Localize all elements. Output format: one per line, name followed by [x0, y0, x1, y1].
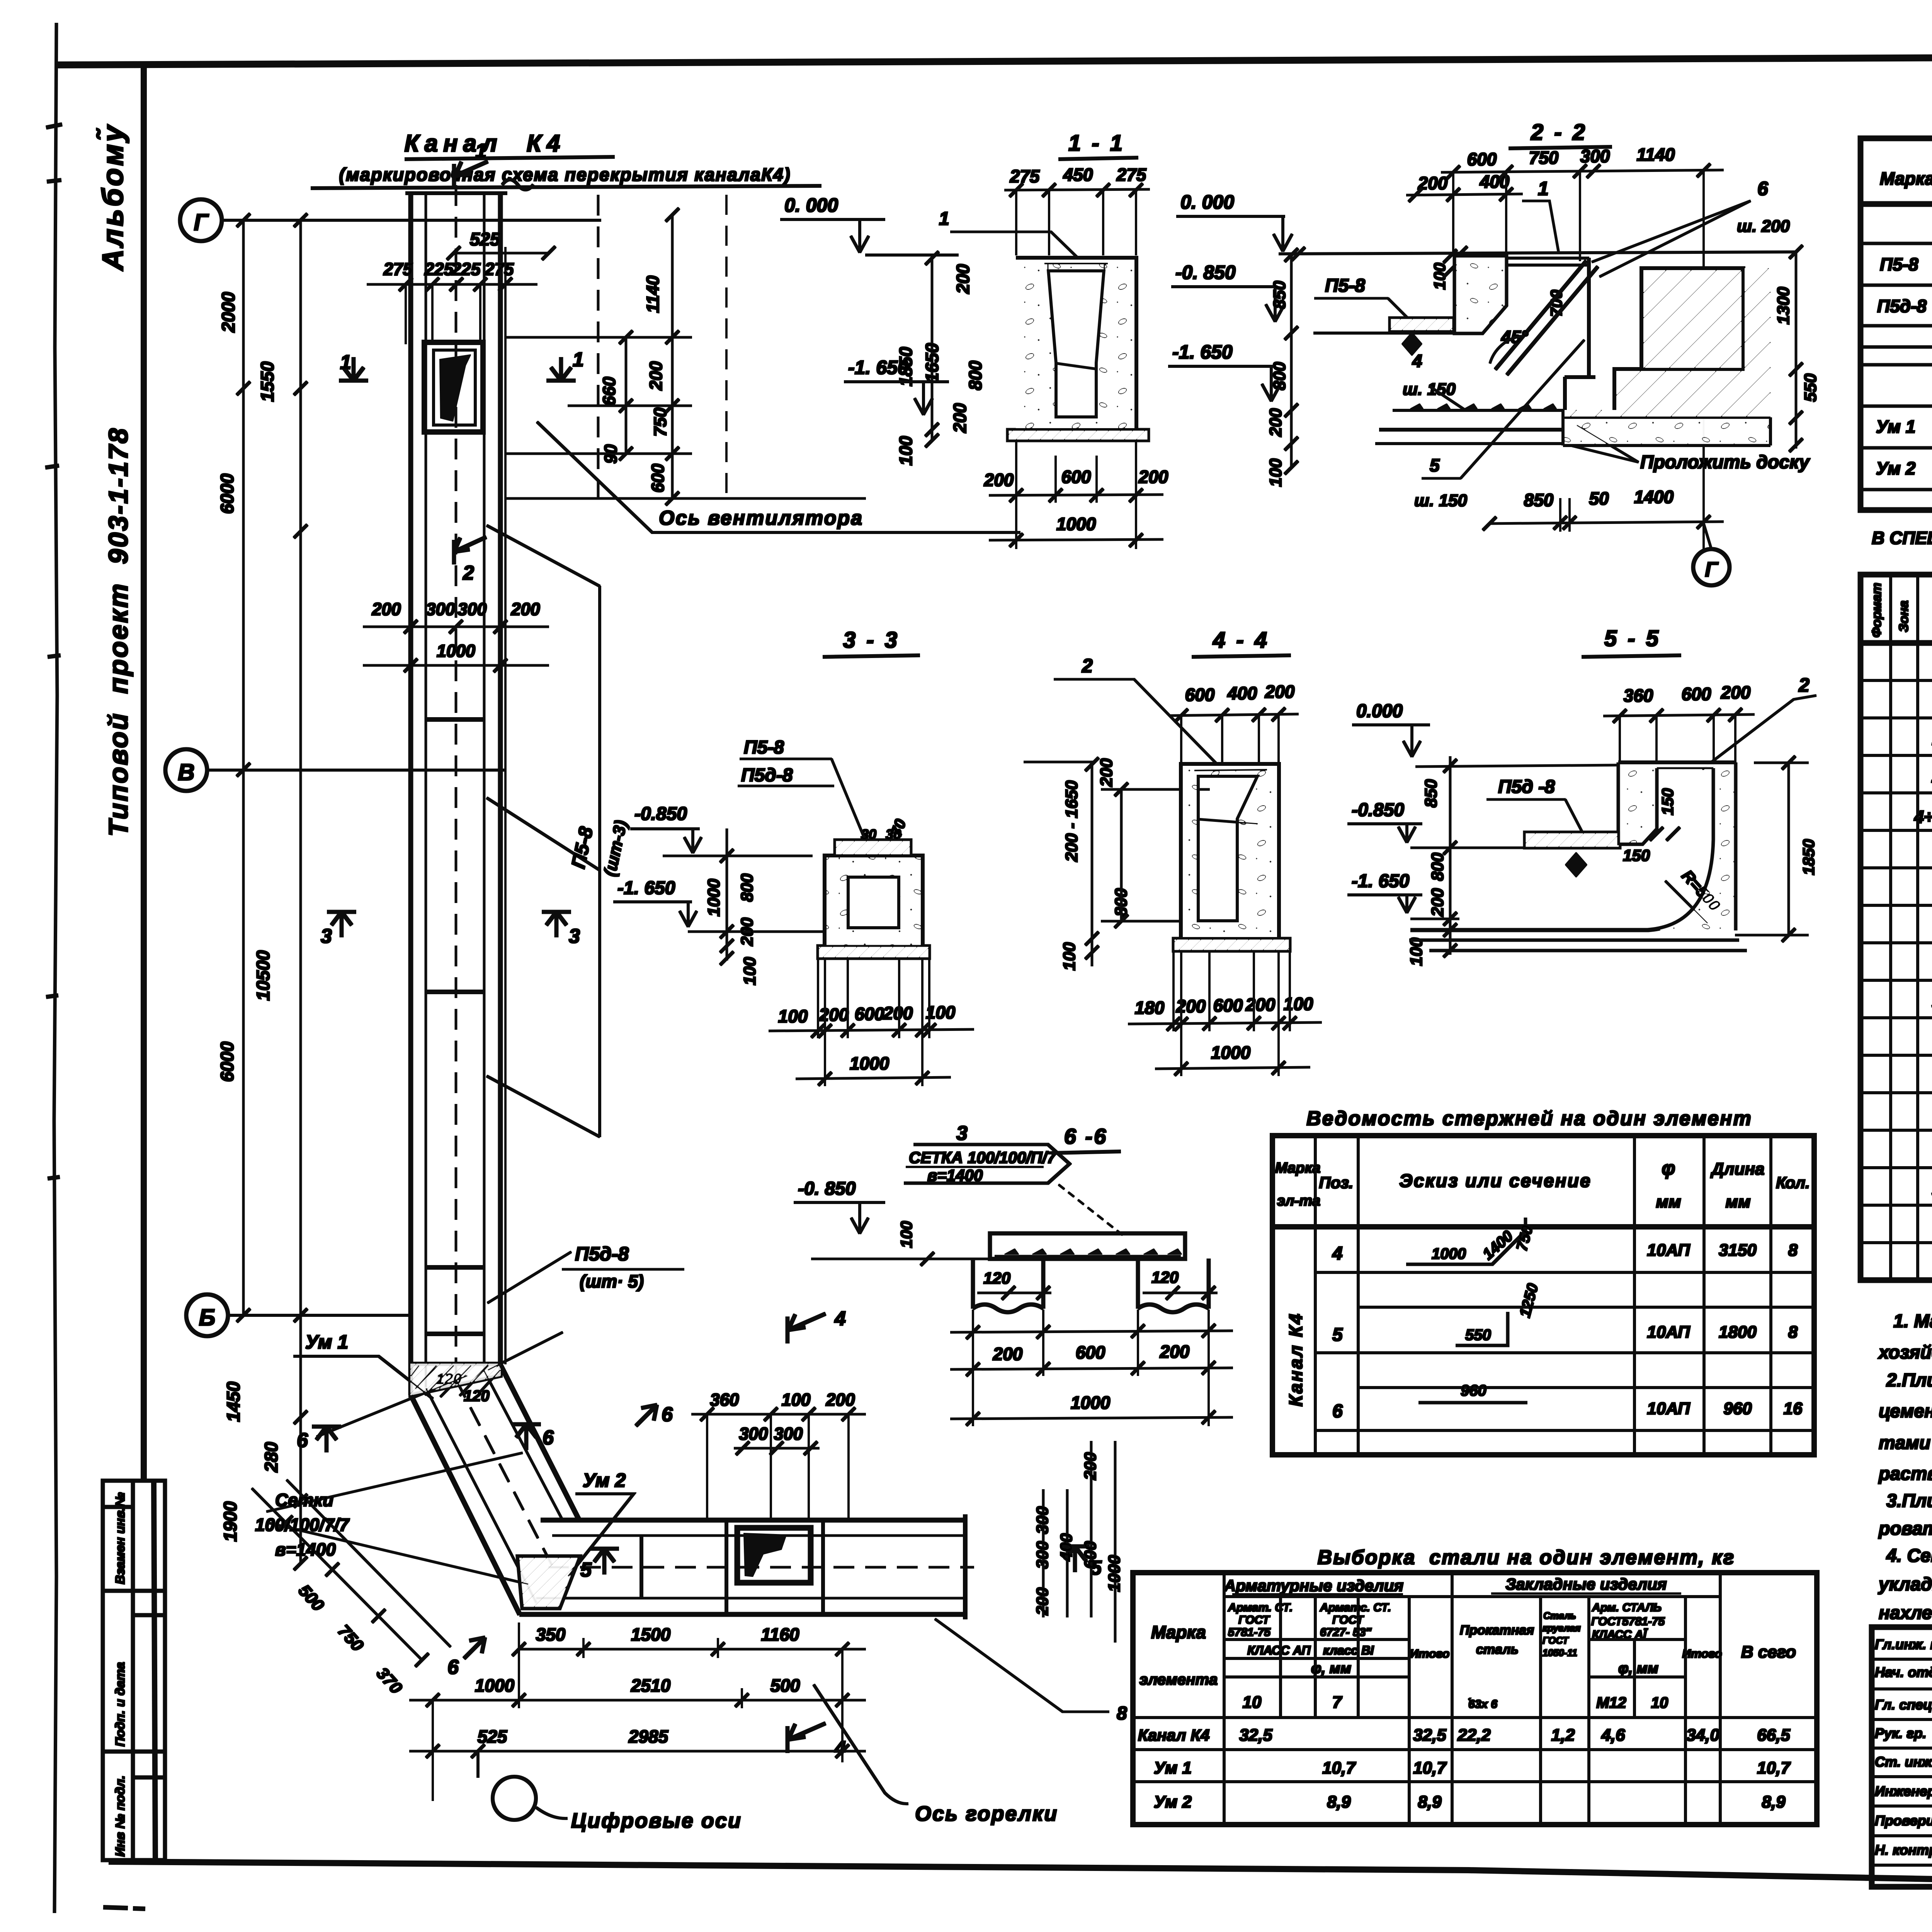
svg-text:450: 450 [1063, 165, 1093, 185]
svg-text:сталь: сталь [1476, 1642, 1519, 1657]
svg-text:П5-8: П5-8 [1325, 276, 1365, 296]
svg-text:200: 200 [510, 599, 540, 619]
svg-text:600: 600 [1061, 467, 1091, 487]
svg-text:100: 100 [778, 1006, 808, 1026]
svg-text:укладывать по ширине канала в: укладывать по ширине канала в [1878, 1574, 1932, 1595]
section 2-2 right dim chain [1795, 252, 1797, 448]
svg-text:5: 5 [1332, 1325, 1343, 1345]
svg-text:300: 300 [1033, 1506, 1052, 1534]
section 5-5 bottom base [1410, 940, 1747, 951]
svg-text:350: 350 [536, 1624, 566, 1645]
svg-text:200: 200 [371, 599, 401, 619]
svg-text:6: 6 [543, 1427, 554, 1449]
svg-text:2000: 2000 [218, 292, 238, 333]
section 3-3 cavity [848, 877, 899, 928]
svg-text:4. Сетки монолитных участ: 4. Сетки монолитных участков [1886, 1546, 1932, 1566]
section 2-2 top dims row2 [1418, 172, 1510, 193]
axis V line [207, 769, 506, 771]
svg-text:600: 600 [855, 1004, 884, 1024]
svg-text:6: 6 [1332, 1401, 1343, 1422]
axis B line [229, 1314, 413, 1316]
section 2-2 plate 1 between block and wall [1508, 258, 1589, 265]
svg-text:5: 5 [1430, 455, 1440, 475]
svg-text:6000: 6000 [217, 1041, 237, 1082]
svg-text:200: 200 [993, 1344, 1023, 1364]
section 2-2 bottom rebar slab [1376, 410, 1565, 444]
svg-text:200: 200 [819, 1005, 849, 1025]
dashed extension line [726, 195, 727, 498]
diagonal channel dashed axis [456, 1379, 552, 1565]
svg-text:ГОСТ: ГОСТ [1238, 1614, 1270, 1626]
svg-text:200: 200 [1138, 467, 1168, 487]
svg-text:200: 200 [1265, 682, 1295, 702]
svg-text:10,7: 10,7 [1322, 1759, 1356, 1777]
svg-text:32,5: 32,5 [1413, 1726, 1446, 1745]
section 3-3 top hatched plate [835, 840, 911, 855]
svg-text:раствором.: раствором. [1878, 1464, 1932, 1484]
svg-text:1,2: 1,2 [1551, 1726, 1575, 1745]
section cut 6 arrows near corner [312, 1405, 657, 1658]
svg-text:100: 100 [1060, 942, 1079, 971]
section 6-6 plate [990, 1233, 1185, 1259]
svg-text:Ум 1: Ум 1 [1154, 1759, 1192, 1777]
svg-text:Арматурные изделия: Арматурные изделия [1224, 1577, 1403, 1595]
svg-text:16: 16 [1784, 1399, 1803, 1418]
section 1-1 base slab [1008, 430, 1148, 440]
svg-text:1300: 1300 [1774, 287, 1793, 325]
svg-text:Сталь: Сталь [1543, 1611, 1576, 1621]
svg-text:3 - 3: 3 - 3 [843, 628, 900, 653]
section cut 5 arrows [590, 1546, 1089, 1574]
svg-text:Типовой проект 903-1-178: Типовой проект 903-1-178 [103, 427, 133, 837]
section 6-6 rebar dots [1005, 1249, 1182, 1254]
svg-text:120: 120 [1151, 1268, 1179, 1286]
svg-text:2: 2 [463, 562, 474, 584]
svg-text:ш. 150: ш. 150 [1414, 491, 1468, 510]
joint lines in horizontal strip [641, 1522, 823, 1613]
svg-text:800: 800 [965, 361, 985, 390]
svg-text:10АП: 10АП [1647, 1241, 1690, 1260]
svg-text:6727- 53″: 6727- 53″ [1320, 1626, 1372, 1639]
svg-text:П5-8: П5-8 [1880, 254, 1918, 274]
svg-text:Ось вентилятора: Ось вентилятора [659, 507, 863, 529]
svg-text:300: 300 [426, 599, 455, 619]
vyborka data rows [1138, 1726, 1791, 1811]
svg-text:200: 200 [1266, 408, 1285, 437]
svg-text:100: 100 [1284, 994, 1313, 1014]
svg-text:100: 100 [740, 957, 759, 985]
svg-text:8,9: 8,9 [1762, 1793, 1786, 1811]
svg-text:1450: 1450 [223, 1381, 243, 1422]
channel K4 vertical strip walls [406, 193, 507, 1395]
svg-text:-1. 650: -1. 650 [1172, 341, 1233, 363]
left chain dim labels [217, 292, 281, 1542]
section 2-2 earth block hatched [1563, 269, 1770, 418]
spec grid [1861, 138, 1932, 510]
svg-text:550: 550 [1801, 373, 1820, 402]
svg-text:1800: 1800 [1719, 1323, 1757, 1342]
svg-text:Инженер: Инженер [1875, 1783, 1932, 1799]
svg-text:П5д-8: П5д-8 [1877, 296, 1927, 316]
section 5-5 right wall and curve [1411, 763, 1735, 930]
section 5-5 top slab line [1619, 761, 1735, 765]
svg-text:Г: Г [1705, 558, 1719, 581]
svg-text:525: 525 [470, 229, 500, 249]
bottom-left stamp labels [113, 1492, 127, 1857]
section 2-2 bottom dims [1524, 487, 1674, 510]
corner guide diagonals from setki label [267, 1376, 529, 1584]
svg-text:225: 225 [424, 259, 454, 279]
section 1-1 leader 1 [951, 232, 1078, 258]
title block signature rows [1872, 1627, 1932, 1887]
top dims of horizontal strip [710, 1390, 855, 1444]
svg-text:6: 6 [447, 1656, 459, 1679]
vyborka grid [1133, 1573, 1817, 1825]
section 2-2 45deg wedge formwork [1495, 261, 1598, 375]
right top dim chain [672, 215, 673, 498]
svg-text:34,0: 34,0 [1686, 1726, 1719, 1745]
svg-text:300: 300 [457, 599, 486, 619]
section 6-6 level line and 100 [811, 1258, 989, 1260]
svg-text:1140: 1140 [1637, 145, 1675, 165]
svg-text:нахлестку обрезать по месту.: нахлестку обрезать по месту. [1879, 1603, 1932, 1623]
section 4-4 base slab [1173, 939, 1290, 951]
svg-text:-0.850: -0.850 [1352, 800, 1404, 820]
section 4-4 left rotated dims [1060, 758, 1131, 971]
svg-text:100: 100 [781, 1390, 810, 1410]
svg-text:Итого: Итого [1682, 1647, 1722, 1660]
svg-text:1500: 1500 [631, 1624, 671, 1645]
svg-text:0.000: 0.000 [1356, 701, 1403, 721]
svg-text:класс ВI: класс ВI [1323, 1643, 1374, 1657]
svg-text:Поз.: Поз. [1319, 1173, 1354, 1192]
svg-text:Гл. спец: Гл. спец [1875, 1697, 1932, 1713]
fan mark dark stroke [440, 355, 471, 421]
svg-text:φ: φ [1662, 1157, 1675, 1179]
svg-text:П5д-8: П5д-8 [741, 765, 793, 786]
svg-text:КЛАСС АЇ: КЛАСС АЇ [1592, 1628, 1648, 1641]
svg-text:СЕТКА 100/100/П/7: СЕТКА 100/100/П/7 [909, 1148, 1056, 1167]
svg-text:в=1400: в=1400 [275, 1539, 336, 1560]
svg-text:2 - 2: 2 - 2 [1531, 120, 1587, 145]
svg-text:800: 800 [1428, 852, 1447, 881]
svg-text:6: 6 [662, 1403, 673, 1426]
vedomost grid [1272, 1136, 1814, 1455]
svg-text:Ст. инж.: Ст. инж. [1875, 1754, 1932, 1770]
svg-text:ГОСТ: ГОСТ [1332, 1614, 1364, 1626]
diagonal channel walls [411, 1365, 580, 1614]
svg-text:6000: 6000 [217, 473, 237, 514]
svg-text:960: 960 [1461, 1382, 1486, 1399]
svg-text:Арм. СТАЛЬ: Арм. СТАЛЬ [1592, 1601, 1662, 1614]
svg-text:ш. 150: ш. 150 [1403, 380, 1456, 399]
svg-text:хозяйства см. лист КЖ-9; КЖ-1: хозяйства см. лист КЖ-9; КЖ-10. [1878, 1342, 1932, 1363]
burner axis label [814, 1685, 908, 1804]
svg-text:600: 600 [1185, 685, 1215, 705]
svg-text:120: 120 [464, 1388, 490, 1405]
svg-text:1. Маркировочную схему подземн: 1. Маркировочную схему подземного [1893, 1311, 1932, 1332]
svg-text:Канал К4: Канал К4 [1286, 1312, 1306, 1406]
signature role labels [1875, 1636, 1932, 1858]
svg-text:Марка: Марка [1880, 168, 1932, 189]
svg-text:Ведомость стержней на один эле: Ведомость стержней на один элемент [1306, 1107, 1752, 1130]
svg-text:100: 100 [926, 1002, 956, 1022]
svg-text:М12: М12 [1596, 1694, 1626, 1711]
section 2-2 concrete strip below [1563, 418, 1770, 445]
svg-text:200: 200 [738, 917, 757, 946]
svg-text:эл-та: эл-та [1277, 1193, 1320, 1209]
svg-text:Ум 2: Ум 2 [583, 1469, 626, 1491]
svg-text:600: 600 [1682, 684, 1711, 704]
svg-text:-1. 650: -1. 650 [848, 357, 908, 378]
section 1-1 body walls concrete [1016, 258, 1136, 430]
svg-text:Арматс. СТ.: Арматс. СТ. [1320, 1601, 1391, 1614]
svg-text:1050-11: 1050-11 [1543, 1648, 1577, 1658]
svg-text:200: 200 [1428, 888, 1447, 917]
svg-text:Альбому̃: Альбому̃ [97, 123, 129, 271]
svg-text:4: 4 [1412, 351, 1422, 371]
section 4-4 top plate lines [1194, 770, 1267, 770]
svg-text:100: 100 [896, 436, 916, 466]
svg-text:1000: 1000 [704, 879, 723, 917]
svg-text:200: 200 [883, 1003, 913, 1023]
svg-text:6 -6: 6 -6 [1064, 1124, 1108, 1148]
svg-text:3: 3 [321, 925, 332, 947]
section 3-3 base slab [818, 946, 929, 958]
svg-text:Длина: Длина [1710, 1160, 1764, 1179]
svg-text:275: 275 [1010, 166, 1040, 186]
svg-text:ш. 200: ш. 200 [1737, 217, 1790, 236]
svg-text:Инв № подл.: Инв № подл. [113, 1776, 127, 1857]
section cut 2 mark [454, 537, 486, 564]
svg-text:50: 50 [1589, 488, 1609, 509]
svg-text:1000: 1000 [475, 1675, 515, 1696]
svg-text:90: 90 [601, 444, 621, 464]
section 6-6 bottom dims [993, 1342, 1190, 1413]
svg-text:0. 000: 0. 000 [784, 194, 838, 216]
bottom dim rows [475, 1624, 800, 1747]
section 1-1 top dims [1010, 165, 1147, 186]
svg-text:400: 400 [1480, 172, 1510, 192]
section cut 1 arrows [339, 357, 575, 381]
svg-text:-1. 650: -1. 650 [617, 878, 675, 898]
section 2-2 top dims row1 [1467, 145, 1675, 169]
section 2-2 orientation diamond [1402, 332, 1422, 355]
section 2-2 vertical wall edge [1565, 258, 1595, 410]
svg-text:П5-8: П5-8 [744, 737, 784, 758]
svg-text:(шт· 5): (шт· 5) [580, 1271, 644, 1291]
fan axis dashed line [597, 195, 599, 498]
svg-text:1000: 1000 [1211, 1043, 1251, 1063]
svg-text:1900: 1900 [220, 1501, 240, 1542]
top cut mark 1 above strip [454, 162, 488, 188]
svg-text:800: 800 [1270, 362, 1289, 390]
svg-text:8: 8 [1788, 1323, 1798, 1342]
section 3-3 left rotated dims [704, 873, 759, 985]
svg-text:Проверил.: Проверил. [1875, 1813, 1932, 1828]
section 5-5 upper-left wall block [1619, 763, 1656, 844]
svg-text:200: 200 [950, 403, 970, 433]
svg-text:500: 500 [770, 1675, 800, 1696]
vedomost headers [1275, 1160, 1320, 1209]
svg-text:400: 400 [1227, 683, 1257, 703]
svg-text:1650: 1650 [922, 343, 942, 383]
svg-text:10АП: 10АП [1647, 1399, 1690, 1418]
svg-text:550: 550 [1465, 1327, 1491, 1344]
svg-text:Цифровые оси: Цифровые оси [571, 1809, 742, 1832]
svg-text:200: 200 [1176, 996, 1206, 1016]
svg-text:960: 960 [1723, 1399, 1752, 1418]
axis circle V [165, 749, 207, 791]
svg-text:круглая: круглая [1543, 1623, 1581, 1634]
svg-text:Б: Б [199, 1304, 215, 1330]
svg-text:4 - 4: 4 - 4 [1213, 628, 1269, 653]
svg-text:120: 120 [983, 1269, 1010, 1287]
svg-text:275: 275 [383, 259, 413, 279]
plate joint rungs [425, 719, 485, 1334]
svg-text:150: 150 [1658, 788, 1677, 815]
svg-text:2510: 2510 [631, 1675, 671, 1696]
svg-text:Ум 1: Ум 1 [1876, 417, 1915, 437]
section 5-5 inner dims [1623, 788, 1818, 915]
Um1 hatch [411, 1364, 500, 1395]
svg-text:600: 600 [1467, 149, 1497, 169]
svg-text:7: 7 [1332, 1693, 1343, 1712]
svg-text:ГОСТ5781-75: ГОСТ5781-75 [1591, 1615, 1665, 1628]
svg-text:тами тщательно заполнить цемен: тами тщательно заполнить цементным [1879, 1433, 1932, 1453]
svg-text:4: 4 [834, 1308, 846, 1330]
section 1-1 top plate line [1044, 262, 1108, 265]
corner monolithic box Um1 [411, 1364, 500, 1395]
svg-text:300: 300 [1580, 146, 1610, 166]
axis circle B [186, 1294, 228, 1336]
section cut 4 marks [787, 1314, 825, 1753]
svg-text:10,7: 10,7 [1413, 1759, 1447, 1777]
svg-text:1850: 1850 [1799, 839, 1818, 875]
mid dims 200 300 300 200 and 1000 [371, 599, 540, 661]
svg-text:30: 30 [861, 827, 876, 842]
svg-text:1: 1 [573, 349, 584, 371]
section 5-5 L body concrete [1619, 763, 1735, 930]
svg-text:200: 200 [825, 1390, 855, 1410]
svg-text:400: 400 [1057, 1533, 1076, 1561]
svg-text:ГОСТ: ГОСТ [1543, 1635, 1570, 1646]
svg-text:66,5: 66,5 [1757, 1726, 1790, 1745]
svg-text:Подп. и дата: Подп. и дата [113, 1662, 127, 1747]
svg-text:Зона: Зона [1896, 600, 1911, 632]
svg-text:3150: 3150 [1719, 1241, 1757, 1260]
svg-text:1000: 1000 [1432, 1245, 1466, 1262]
svg-text:П5д-8: П5д-8 [575, 1243, 629, 1265]
svg-text:Закладные изделия: Закладные изделия [1505, 1575, 1667, 1593]
svg-text:Взамен инв.№: Взамен инв.№ [113, 1492, 127, 1584]
axis G line [222, 219, 601, 221]
svg-text:мм: мм [1725, 1192, 1750, 1211]
svg-text:30: 30 [886, 827, 901, 842]
svg-text:6: 6 [297, 1429, 308, 1452]
svg-text:В сего: В сего [1741, 1643, 1796, 1662]
svg-text:360: 360 [710, 1390, 739, 1410]
svg-text:1160: 1160 [761, 1624, 799, 1645]
section 4-4 bottom dims [1135, 994, 1313, 1063]
section 2-2 axis G circle [1693, 549, 1730, 585]
svg-text:Ум 2: Ум 2 [1876, 458, 1916, 478]
digital axes circle and label [493, 1777, 536, 1820]
sheet frame border [58, 55, 1932, 65]
section 2-2 left vertical chain [1291, 255, 1293, 468]
fan opening rectangle [424, 342, 483, 432]
section 3-3 left dim line [726, 829, 728, 960]
svg-text:1000: 1000 [1056, 514, 1096, 534]
setki grid label [255, 1490, 350, 1560]
svg-text:мм: мм [1656, 1192, 1681, 1211]
svg-text:Кол.: Кол. [1776, 1173, 1810, 1192]
svg-text:32,5: 32,5 [1239, 1726, 1272, 1745]
svg-text:360: 360 [1624, 685, 1653, 706]
svg-text:Гл.инж. пр.: Гл.инж. пр. [1875, 1636, 1932, 1652]
svg-text:Прокатная: Прокатная [1460, 1623, 1534, 1638]
Um2 monolithic hatched area [518, 1556, 580, 1608]
svg-text:Ось горелки: Ось горелки [915, 1802, 1058, 1825]
svg-text:6: 6 [1757, 178, 1769, 199]
svg-text:10АП: 10АП [1647, 1323, 1690, 1342]
paper edge noise dashes [46, 124, 62, 1179]
svg-text:600: 600 [1213, 995, 1243, 1015]
svg-text:100: 100 [1266, 458, 1285, 487]
section 5-5 horizontal plate hatched [1525, 832, 1620, 848]
svg-text:֫63х 6: ֫63х 6 [1468, 1698, 1497, 1711]
section 5-5 orientation diamond [1565, 852, 1587, 877]
svg-text:10500: 10500 [253, 950, 273, 1001]
svg-text:2: 2 [1082, 655, 1093, 677]
svg-text:1140: 1140 [643, 276, 663, 313]
svg-text:1: 1 [939, 209, 949, 229]
section 2-2 hatched plate left [1390, 318, 1453, 331]
svg-text:Эскиз или сечение: Эскиз или сечение [1399, 1171, 1591, 1191]
svg-text:1: 1 [1538, 178, 1549, 199]
section 2-2 top-left concrete block [1455, 256, 1506, 333]
svg-text:1: 1 [340, 351, 351, 374]
svg-text:200: 200 [646, 361, 666, 391]
svg-text:200: 200 [1245, 995, 1276, 1015]
svg-text:750: 750 [650, 408, 670, 437]
svg-text:100: 100 [897, 1221, 915, 1248]
svg-text:8,9: 8,9 [1327, 1793, 1351, 1811]
svg-text:8: 8 [1117, 1703, 1127, 1724]
svg-text:1000: 1000 [850, 1053, 889, 1073]
svg-text:600: 600 [1076, 1342, 1105, 1362]
svg-text:850: 850 [1524, 490, 1554, 510]
svg-text:200: 200 [1721, 682, 1751, 702]
svg-text:Выборка стали на один элемент: Выборка стали на один элемент, кг [1318, 1546, 1735, 1569]
svg-text:Формат: Формат [1869, 583, 1884, 638]
section 4-4 body [1181, 764, 1279, 939]
section 5-5 top dims [1624, 682, 1751, 706]
svg-text:100: 100 [1407, 937, 1426, 966]
svg-text:2.Плиты перекрытия укладывать: 2.Плиты перекрытия укладывать на [1886, 1370, 1932, 1391]
svg-text:Канал К4: Канал К4 [1138, 1726, 1209, 1744]
paper left edge line [54, 23, 57, 1913]
svg-text:Н. контр.: Н. контр. [1875, 1842, 1932, 1858]
section 3-3 body [825, 856, 922, 949]
diagonal dim lines for bend [252, 1480, 451, 1660]
svg-text:-0. 850: -0. 850 [798, 1179, 856, 1199]
svg-text:300: 300 [1033, 1541, 1052, 1569]
svg-text:0. 000: 0. 000 [1180, 191, 1234, 213]
svg-text:1000: 1000 [437, 641, 475, 661]
table2 grid [1861, 575, 1932, 1280]
svg-text:3: 3 [569, 925, 580, 947]
